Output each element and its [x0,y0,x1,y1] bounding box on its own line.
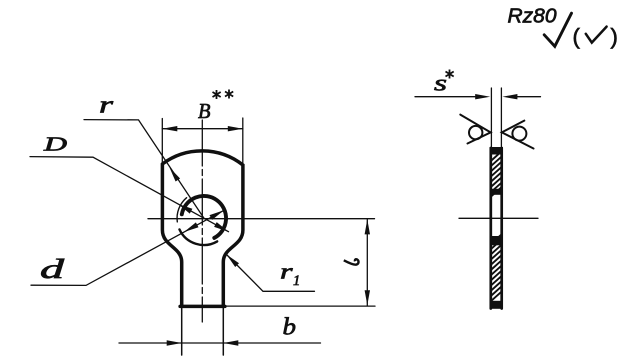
arrowhead l bottom [365,290,370,305]
arrowhead b left [167,340,182,345]
arrowhead b right [223,340,238,345]
asterisk of s [446,70,454,79]
asterisks of B [213,70,454,100]
small check in parens [586,27,607,43]
side view top cap [490,147,504,155]
side view extension lines above [491,88,501,150]
arrowhead s right [502,94,517,99]
circle D upper-left arc [177,198,187,222]
arrowhead s left [475,94,490,99]
part outline front view [162,151,243,307]
vertical centerline [201,120,203,322]
svg-text:Rz80: Rz80 [508,6,557,28]
hatch merge above hole [490,189,503,195]
arrowhead B left [162,126,177,131]
dimension line l [366,219,368,305]
side view bottom cap [490,301,504,309]
arrowhead l top [365,219,370,234]
hatching of side view [491,152,501,301]
extension line B right [242,118,244,165]
arrowhead D near [178,204,192,214]
dimension line B [162,128,243,130]
leader D [30,157,229,232]
svg-text:B: B [198,99,211,123]
leader d [31,210,224,285]
svg-text:(: ( [573,24,581,49]
hatch merge below hole [490,236,503,245]
extension line b right [222,307,224,355]
hole circle d [182,196,226,238]
arrowhead d far [210,210,225,220]
dimension line s [415,96,541,98]
side view centerline [459,217,538,219]
horizontal centerline / top reference for l [148,218,375,220]
extension line b left [181,307,183,355]
roughness mark Rz80 check [544,13,571,46]
dimension line b [119,342,321,344]
arrowhead r [170,168,181,182]
svg-text:d: d [40,254,65,284]
label l rotated (cursive ell) [344,259,359,265]
svg-text:s: s [434,71,447,96]
svg-text:b: b [283,315,297,341]
side view body edges [491,148,502,309]
arrowhead B right [228,126,243,131]
roughness symbol right [502,121,534,149]
arrowhead r1 [227,255,240,268]
roughness symbol left [460,115,490,144]
circle D lower arc [180,230,218,245]
extension line B left [161,119,163,164]
svg-text:1: 1 [293,273,300,289]
svg-text:): ) [611,24,618,49]
arrowhead D far [214,222,228,232]
svg-text:D: D [42,135,67,156]
svg-text:r: r [99,93,114,119]
arrowhead d near [184,222,199,232]
svg-text:r: r [280,259,293,284]
bottom reference line for l [225,305,376,307]
leader r1 [227,255,315,292]
leader r [84,120,204,218]
